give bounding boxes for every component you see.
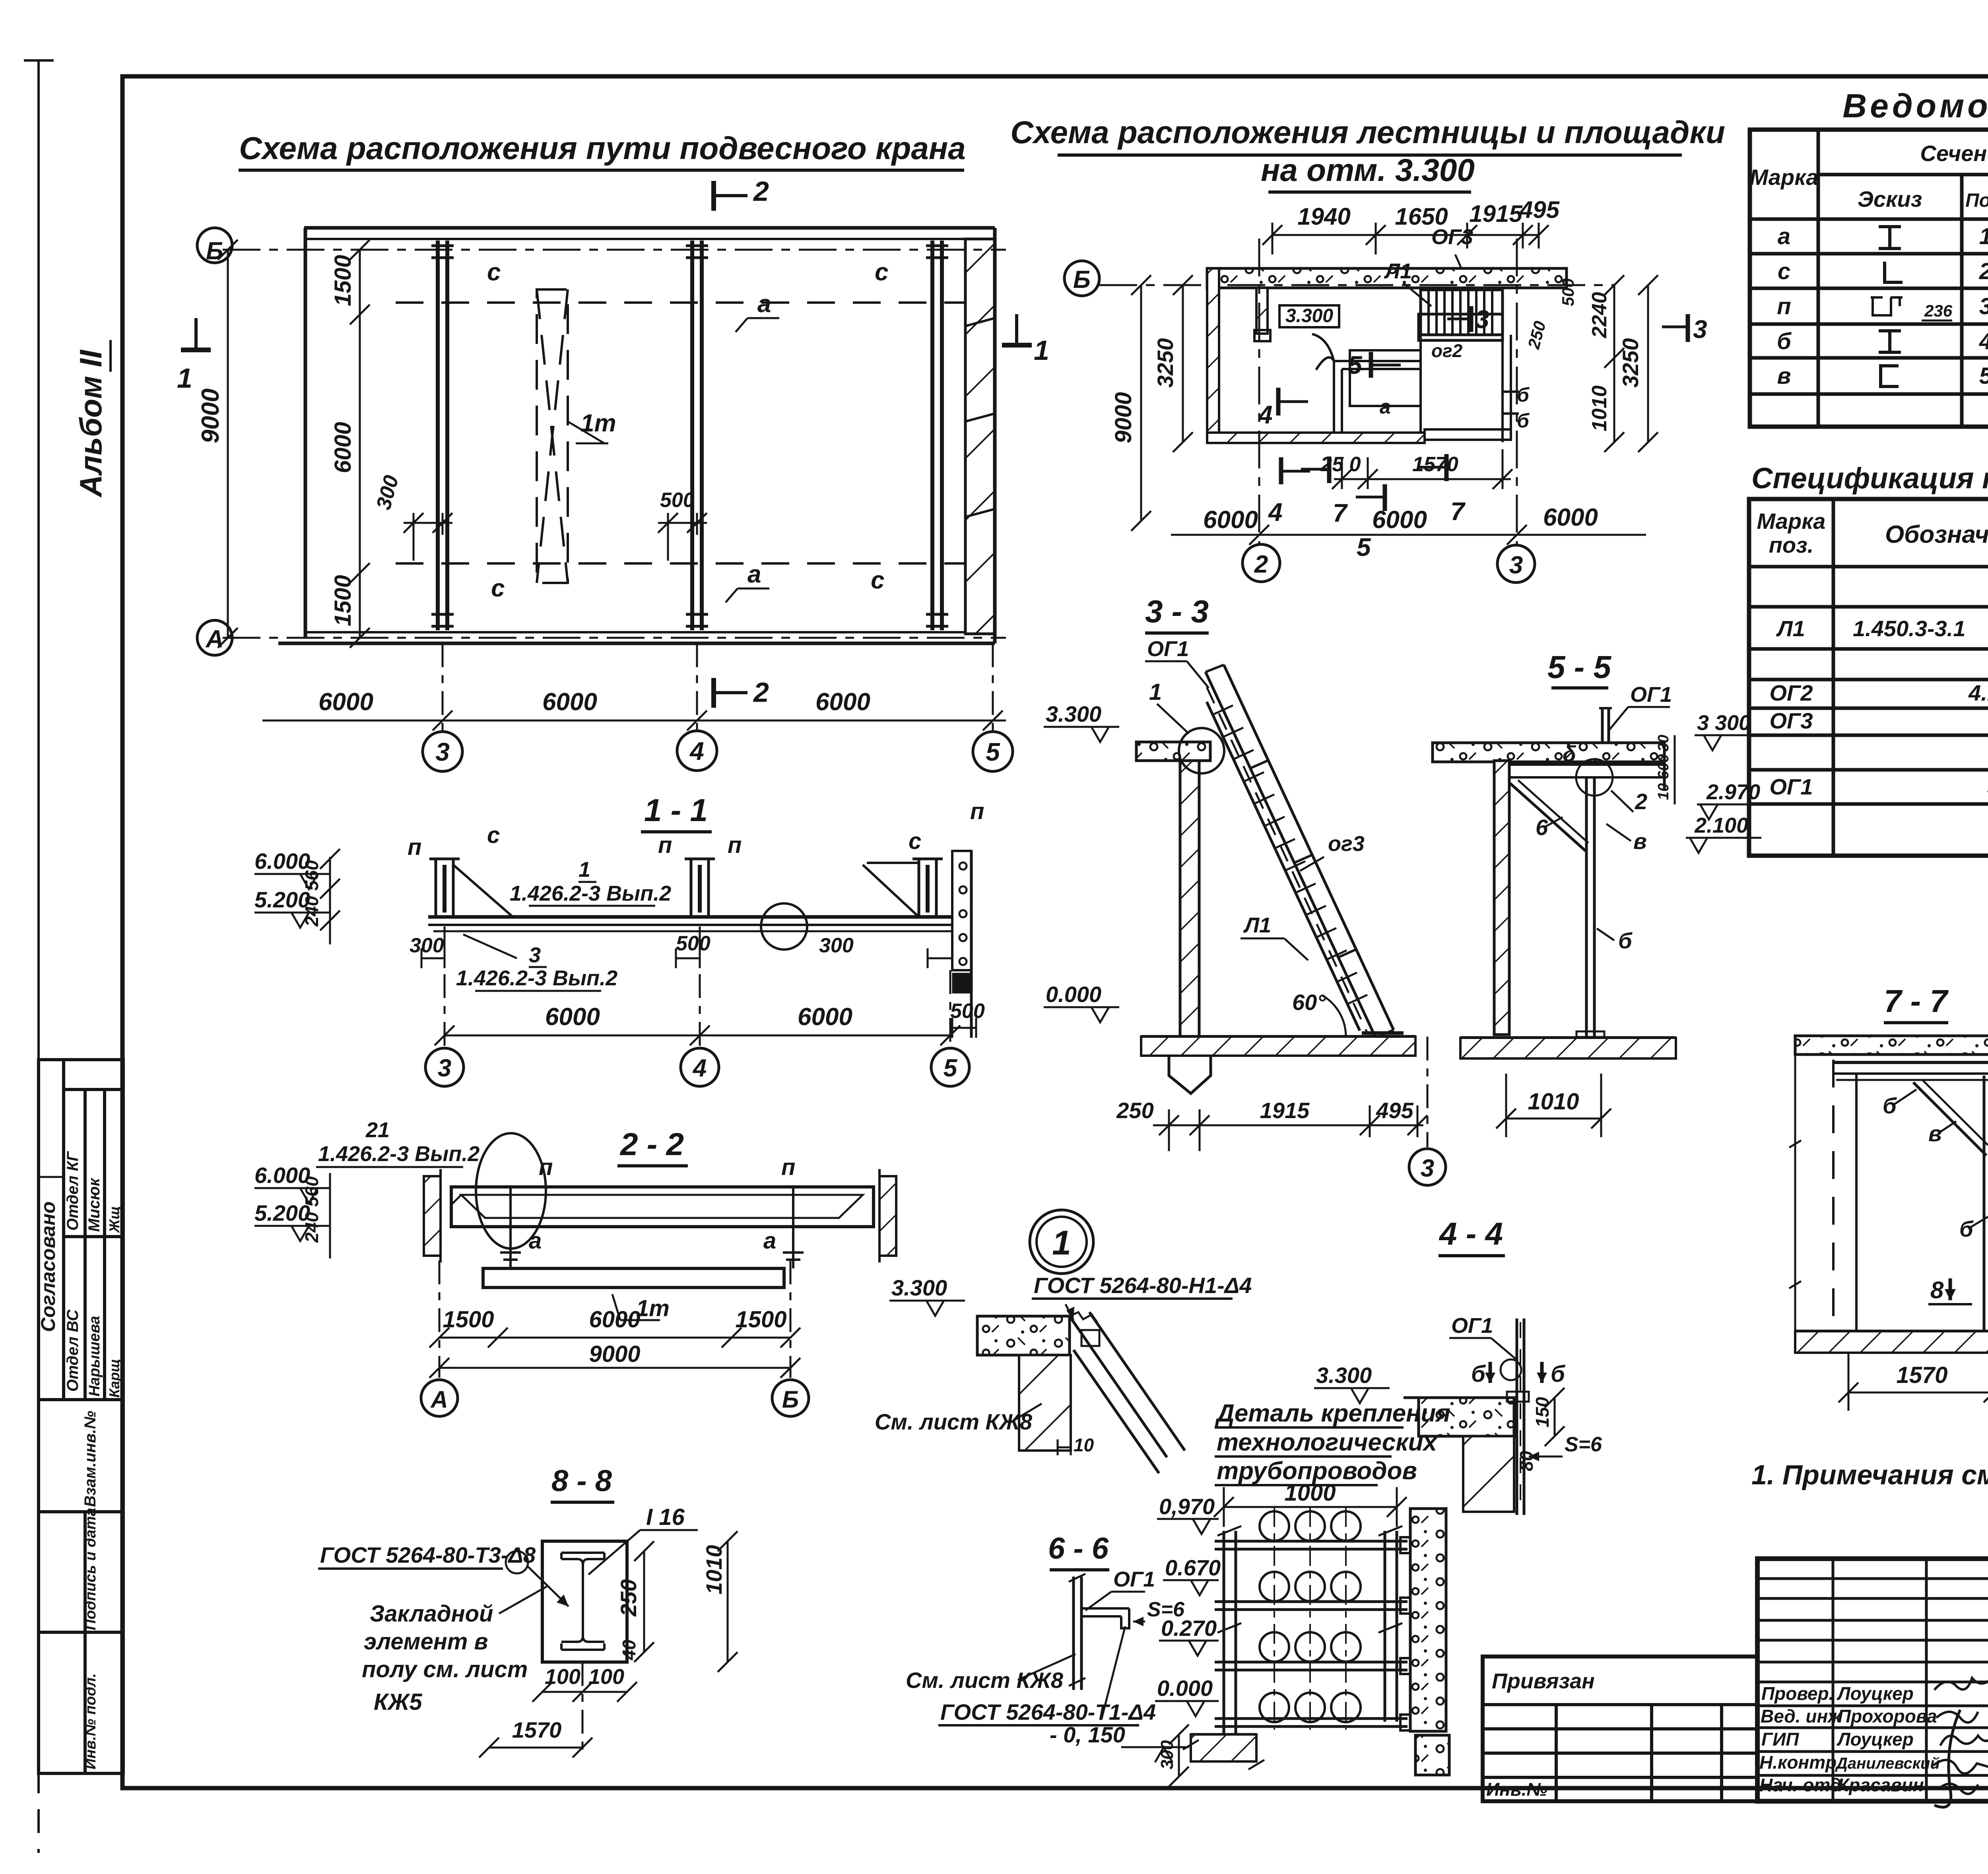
svg-text:б: б (1618, 928, 1633, 953)
svg-text:240: 240 (301, 1212, 322, 1243)
svg-text:c: c (875, 258, 888, 286)
elevations right (1694, 780, 1760, 837)
svg-text:3: 3 (438, 1054, 451, 1082)
svg-text:2 - 2: 2 - 2 (619, 1126, 684, 1162)
bottom dim 1570 (1848, 1392, 1988, 1394)
svg-text:ГОСТ 5264-80-Т3-Δ8: ГОСТ 5264-80-Т3-Δ8 (320, 1542, 536, 1567)
dim 1000 (1224, 1506, 1397, 1508)
svg-text:3: 3 (1421, 1155, 1434, 1182)
left break line (1794, 1036, 1796, 1331)
svg-text:236: 236 (1924, 301, 1953, 320)
dim 1010 (1506, 1118, 1601, 1120)
svg-text:Взам.инв.№: Взам.инв.№ (82, 1411, 99, 1507)
svg-text:1: 1 (1034, 335, 1049, 366)
svg-text:560: 560 (301, 1176, 322, 1207)
crane beam rails vertical (grid 3,4,5) (438, 241, 942, 630)
svg-text:Согласовано: Согласовано (37, 1201, 59, 1332)
svg-text:1570: 1570 (1896, 1362, 1947, 1388)
dim 250 / 1570 below platform (1332, 449, 1512, 489)
svg-text:1500: 1500 (443, 1307, 494, 1332)
ladder: stringers (1206, 665, 1394, 1038)
dims below (1153, 1124, 1423, 1126)
svg-text:ОГ1: ОГ1 (1769, 774, 1813, 799)
sketches column (1871, 227, 1903, 386)
svg-text:2240: 2240 (1588, 292, 1611, 338)
svg-text:10: 10 (1074, 1435, 1094, 1455)
svg-text:7 - 7: 7 - 7 (1884, 983, 1949, 1019)
section marker 1 left (181, 348, 211, 352)
svg-text:Данилевский: Данилевский (1835, 1755, 1940, 1772)
svg-text:1915: 1915 (1260, 1098, 1310, 1123)
svg-text:60°: 60° (1292, 990, 1326, 1015)
hanger assemblies at grids (429, 859, 943, 917)
note text (362, 1601, 528, 1715)
svg-text:1.426.2-3 Вып.2: 1.426.2-3 Вып.2 (456, 966, 617, 990)
svg-text:4: 4 (692, 1054, 707, 1082)
svg-text:1.426.2-3 Вып.2: 1.426.2-3 Вып.2 (318, 1142, 480, 1166)
right side markers/dims (1686, 314, 1690, 342)
shelf beam (1833, 1061, 1988, 1064)
grid axis B (223, 249, 1006, 251)
svg-text:1: 1 (1052, 1224, 1071, 1262)
right wall column (1410, 1509, 1446, 1731)
svg-text:2.100: 2.100 (1694, 814, 1748, 837)
svg-text:2: 2 (1979, 258, 1988, 284)
svg-text:1: 1 (177, 363, 192, 394)
svg-text:0.000: 0.000 (1157, 1676, 1213, 1701)
svg-text:б: б (1517, 384, 1530, 406)
signatures (1933, 1678, 1988, 1807)
plan top chord (304, 226, 995, 230)
svg-text:250: 250 (1116, 1098, 1153, 1123)
post (1983, 1076, 1986, 1333)
left wall (1207, 268, 1219, 442)
svg-text:б: б (1883, 1093, 1897, 1118)
dim column 1500/6000/1500 (359, 250, 361, 638)
svg-text:1: 1 (1149, 679, 1162, 705)
svg-text:Схема расположения пути под: Схема расположения пути подвесного крана (239, 130, 965, 166)
posts (1223, 1531, 1225, 1734)
svg-text:а: а (1778, 223, 1790, 249)
svg-text:30: 30 (1655, 735, 1672, 752)
svg-text:ОГ2: ОГ2 (1769, 680, 1813, 705)
vertical dims left (1140, 285, 1142, 521)
svg-text:240: 240 (301, 896, 322, 927)
svg-text:300: 300 (819, 934, 854, 957)
svg-text:c: c (1778, 258, 1790, 284)
dim 9000 vertical (227, 250, 229, 638)
slab (1795, 1036, 1988, 1054)
svg-text:4: 4 (1268, 498, 1283, 526)
main runway beam lines (428, 915, 964, 919)
title plan kran (239, 130, 965, 166)
svg-text:5: 5 (1979, 363, 1988, 389)
svg-text:2: 2 (753, 176, 769, 207)
svg-text:3250: 3250 (1618, 338, 1643, 388)
svg-text:Схема расположения лестницы и: Схема расположения лестницы и площадки (1010, 115, 1725, 150)
svg-text:КЖ5: КЖ5 (374, 1689, 422, 1715)
svg-text:80: 80 (1516, 1451, 1537, 1471)
svg-text:3: 3 (1979, 293, 1988, 319)
svg-text:Марка: Марка (1757, 509, 1826, 534)
svg-text:1т: 1т (636, 1295, 670, 1321)
svg-text:3: 3 (1475, 305, 1489, 334)
label 3 / 1.426.2-3 vyp.2 (456, 943, 617, 990)
axis B (1099, 284, 1614, 286)
svg-text:4: 4 (689, 737, 704, 765)
section markers 4,5,3,7 (1278, 306, 1471, 511)
svg-text:495: 495 (1519, 196, 1560, 223)
svg-text:c: c (909, 828, 921, 854)
svg-text:c: c (487, 822, 500, 848)
svg-text:б: б (1471, 1361, 1486, 1387)
svg-text:4: 4 (1979, 328, 1988, 354)
svg-text:Деталь крепления: Деталь крепления (1215, 1400, 1450, 1427)
svg-text:40: 40 (619, 1639, 639, 1660)
left wall hidden (1832, 1060, 1835, 1331)
svg-text:1.426.2-3 Вып.2: 1.426.2-3 Вып.2 (510, 882, 671, 905)
grid axis A (223, 637, 1006, 639)
svg-text:c: c (871, 567, 884, 594)
left sidebar stamp table (39, 1060, 123, 1773)
svg-text:а: а (757, 290, 771, 318)
svg-text:Жщ: Жщ (106, 1206, 122, 1233)
rungs (1213, 705, 1367, 1004)
svg-text:1010: 1010 (1588, 385, 1611, 431)
svg-text:Л1: Л1 (1384, 259, 1412, 283)
elevations left (254, 1163, 310, 1225)
svg-text:Марка: Марка (1750, 165, 1819, 190)
svg-text:ОГ1: ОГ1 (1147, 637, 1189, 661)
svg-text:3: 3 (529, 943, 541, 967)
svg-text:2: 2 (1635, 789, 1647, 814)
svg-text:5 - 5: 5 - 5 (1547, 649, 1612, 685)
svg-text:2: 2 (1254, 551, 1268, 578)
dims (643, 1551, 645, 1652)
section marker 2 top (711, 181, 716, 211)
left wall (1494, 761, 1509, 1035)
svg-text:Л1: Л1 (1776, 616, 1805, 641)
svg-text:Закладной: Закладной (370, 1601, 493, 1627)
ground (1795, 1330, 1988, 1333)
svg-text:Эскиз: Эскиз (1858, 186, 1922, 212)
right wall column (952, 851, 971, 970)
svg-text:2: 2 (753, 677, 769, 708)
slab (1419, 1398, 1514, 1436)
markers 8 (1930, 1277, 1988, 1303)
svg-text:3: 3 (435, 738, 450, 766)
slab 1t (483, 1268, 784, 1288)
svg-text:6000: 6000 (330, 422, 356, 473)
svg-text:ог2: ог2 (1431, 340, 1463, 361)
svg-text:б: б (1959, 1216, 1974, 1241)
svg-text:ОГ3: ОГ3 (1769, 708, 1813, 733)
top dims 1940 1650 1915 495 (1272, 234, 1539, 236)
svg-text:Отдел КГ: Отдел КГ (64, 1151, 82, 1231)
vertical dims right (1647, 285, 1649, 442)
svg-text:Н.контр: Н.контр (1759, 1752, 1837, 1773)
svg-text:1500: 1500 (330, 575, 356, 626)
svg-text:ОГ3: ОГ3 (1431, 225, 1473, 249)
svg-text:δ: δ (1563, 741, 1576, 766)
svg-text:ОГ1: ОГ1 (1113, 1567, 1155, 1591)
svg-text:Отдел ВС: Отдел ВС (64, 1309, 82, 1392)
svg-text:100: 100 (588, 1665, 624, 1689)
svg-text:См. лист КЖ8: См. лист КЖ8 (875, 1409, 1033, 1434)
svg-text:2.970: 2.970 (1706, 780, 1760, 804)
platform (1419, 314, 1503, 340)
ladder plan (1421, 290, 1503, 335)
elevation labels (1050, 1494, 1221, 1747)
svg-text:а: а (1380, 396, 1391, 418)
svg-text:Л1: Л1 (1243, 913, 1271, 937)
bottom dims (445, 1035, 950, 1037)
svg-text:500: 500 (676, 932, 711, 955)
svg-text:5: 5 (1348, 351, 1363, 379)
wall (1180, 761, 1199, 1037)
svg-text:1. Примечания см. на листе: 1. Примечания см. на листе КМ1. (1751, 1459, 1988, 1490)
elevations left (254, 849, 310, 912)
svg-text:Привязан: Привязан (1492, 1669, 1595, 1693)
post (1516, 1319, 1518, 1515)
svg-text:6000: 6000 (1543, 504, 1598, 531)
svg-text:Провер.: Провер. (1761, 1683, 1834, 1704)
I beam profile (561, 1553, 604, 1650)
svg-text:3250: 3250 (1153, 338, 1178, 388)
svg-text:3.300: 3.300 (1316, 1363, 1372, 1388)
bottom walls of plan (1207, 433, 1425, 443)
svg-text:ГОСТ 5264-80-Н1-Δ4: ГОСТ 5264-80-Н1-Δ4 (1034, 1273, 1252, 1298)
svg-text:п: п (970, 798, 984, 824)
svg-text:5: 5 (944, 1054, 958, 1082)
plan bottom chord (305, 631, 995, 633)
svg-text:Прохорова: Прохорова (1838, 1706, 1937, 1726)
brace (1913, 1082, 1986, 1155)
svg-text:600: 600 (1655, 754, 1672, 779)
svg-text:6000: 6000 (545, 1003, 600, 1031)
svg-text:1500: 1500 (330, 255, 356, 306)
svg-text:а: а (763, 1228, 776, 1254)
svg-text:3.300: 3.300 (1285, 305, 1333, 326)
svg-text:500: 500 (1559, 278, 1577, 306)
wall below slab (1463, 1436, 1514, 1512)
svg-text:Лоуцкер: Лоуцкер (1837, 1683, 1914, 1704)
svg-text:1010: 1010 (701, 1545, 726, 1594)
svg-text:21: 21 (365, 1118, 390, 1142)
landing foot plate (1362, 1031, 1404, 1035)
detail circle 1 at top (1179, 728, 1224, 773)
section marker 1 right (1002, 343, 1032, 348)
svg-text:Инв.№ подл.: Инв.№ подл. (82, 1673, 99, 1769)
svg-text:6000: 6000 (815, 688, 870, 716)
small dims 300 500 300 (410, 932, 985, 1023)
svg-text:250: 250 (616, 1579, 641, 1617)
album II vertical text (73, 350, 108, 498)
svg-text:Б: Б (206, 237, 223, 265)
ground (1460, 1036, 1676, 1039)
svg-text:1500: 1500 (735, 1307, 786, 1332)
label 1 / 1.426.2-3 vyp.2 (510, 858, 671, 905)
base (1046, 982, 1101, 1007)
svg-text:ГИП: ГИП (1761, 1729, 1799, 1750)
svg-text:4.1.2.1.0-13: 4.1.2.1.0-13 (1968, 680, 1988, 705)
svg-text:10: 10 (1655, 783, 1672, 800)
svg-text:1915: 1915 (1469, 200, 1523, 227)
svg-text:c: c (491, 575, 505, 602)
svg-text:500: 500 (660, 489, 695, 512)
svg-text:I 16: I 16 (646, 1504, 685, 1530)
svg-text:c: c (487, 258, 501, 286)
svg-text:9000: 9000 (1110, 392, 1136, 443)
svg-text:элемент в: элемент в (364, 1629, 488, 1655)
svg-text:а: а (529, 1228, 542, 1254)
svg-text:технологических: технологических (1217, 1429, 1438, 1456)
svg-text:Вед. инж: Вед. инж (1761, 1706, 1842, 1726)
svg-text:в: в (1633, 829, 1647, 854)
svg-text:на отм. 3.300: на отм. 3.300 (1261, 152, 1475, 188)
paper fold line left (37, 60, 40, 1610)
svg-text:Альбом II: Альбом II (73, 350, 108, 498)
svg-text:9000: 9000 (197, 388, 224, 443)
svg-text:100: 100 (545, 1665, 580, 1689)
svg-text:6000: 6000 (1372, 506, 1427, 534)
top slab (1136, 742, 1210, 761)
svg-text:Поз.: Поз. (1965, 190, 1988, 211)
slab (977, 1316, 1070, 1355)
data rows (1777, 223, 1988, 391)
svg-text:0.270: 0.270 (1161, 1616, 1217, 1641)
rail end I-symbols (431, 246, 948, 626)
svg-text:1010: 1010 (1528, 1089, 1579, 1115)
svg-text:1940: 1940 (1297, 203, 1350, 230)
svg-text:Лоуцкер: Лоуцкер (1837, 1729, 1914, 1750)
svg-text:3.300: 3.300 (1046, 701, 1101, 726)
svg-text:1.450.3-3.1: 1.450.3-3.1 (1853, 616, 1965, 641)
svg-text:Спецификация к схеме расположе: Спецификация к схеме расположения лестни… (1751, 462, 1988, 495)
dims right (1554, 1398, 1556, 1436)
svg-text:8 - 8: 8 - 8 (551, 1464, 612, 1498)
svg-text:6000: 6000 (542, 688, 597, 716)
crane beam side view (451, 1187, 874, 1227)
svg-text:8: 8 (1930, 1277, 1944, 1303)
svg-text:Карщ: Карщ (106, 1359, 122, 1398)
svg-text:7: 7 (1333, 499, 1348, 527)
plan bottom dims 6000x3 (262, 720, 1006, 722)
svg-text:поз.: поз. (1769, 532, 1814, 557)
grid verticals 2,3 (1258, 239, 1260, 544)
svg-text:5: 5 (986, 738, 1000, 766)
svg-text:- 0, 150: - 0, 150 (1050, 1722, 1125, 1747)
embedded plate (542, 1541, 627, 1662)
pier stub (1256, 288, 1268, 334)
svg-text:3 - 3: 3 - 3 (1145, 594, 1209, 629)
svg-text:Нарышева: Нарышева (86, 1316, 103, 1396)
svg-text:б: б (1777, 328, 1792, 354)
svg-text:б: б (1551, 1361, 1566, 1387)
svg-text:7: 7 (1450, 497, 1466, 526)
svg-text:3: 3 (1509, 552, 1523, 579)
svg-text:6000: 6000 (318, 688, 373, 716)
plan left edge (304, 228, 307, 638)
svg-text:в: в (1777, 363, 1791, 389)
right wall hatched (965, 239, 995, 634)
svg-text:4 - 4: 4 - 4 (1439, 1216, 1503, 1251)
svg-text:п: п (1777, 293, 1791, 319)
svg-text:1000: 1000 (1284, 1480, 1336, 1506)
svg-text:п: п (658, 832, 672, 858)
svg-text:А: А (430, 1386, 448, 1413)
svg-text:Красавин: Красавин (1838, 1775, 1924, 1795)
svg-text:Нач. отд: Нач. отд (1759, 1775, 1841, 1795)
svg-text:6000: 6000 (1203, 506, 1258, 534)
3.300 box (1279, 305, 1339, 327)
wall below (1019, 1355, 1071, 1451)
svg-text:Б: Б (782, 1386, 799, 1413)
svg-text:п: п (408, 834, 421, 860)
b markers right of platform (1517, 384, 1530, 432)
svg-text:п: п (781, 1154, 795, 1180)
dashed tie lines c (396, 301, 965, 304)
svg-text:полу см. лист: полу см. лист (362, 1656, 528, 1682)
svg-text:а: а (747, 561, 761, 588)
svg-text:Сечение: Сечение (1920, 141, 1988, 166)
ground (1191, 1733, 1256, 1736)
dim 300 / 500 small (404, 513, 452, 561)
rail-to-wall stubs (1400, 1537, 1412, 1730)
wall piers (424, 1176, 441, 1256)
slab (1433, 743, 1664, 762)
svg-text:25 0: 25 0 (1320, 453, 1361, 476)
small linked table (1483, 1656, 1757, 1801)
top slab strip (1207, 268, 1567, 288)
svg-text:ог3: ог3 (1328, 832, 1365, 856)
svg-text:0.670: 0.670 (1165, 1555, 1221, 1580)
svg-text:S=6: S=6 (1565, 1433, 1602, 1456)
svg-text:0,970: 0,970 (1159, 1494, 1215, 1519)
svg-text:Ведомость элементов: Ведомость элементов (1842, 87, 1988, 124)
bottom dims (439, 1337, 790, 1339)
svg-text:ОГ1: ОГ1 (1630, 683, 1672, 707)
svg-text:п: п (539, 1154, 553, 1180)
bracket (1081, 1608, 1129, 1628)
svg-text:5: 5 (1357, 533, 1371, 561)
svg-text:150: 150 (1532, 1397, 1553, 1427)
svg-text:Инв.№: Инв.№ (1486, 1779, 1547, 1800)
rails (1215, 1541, 1408, 1726)
svg-text:1 - 1: 1 - 1 (644, 792, 708, 828)
svg-text:3.300: 3.300 (891, 1275, 947, 1300)
svg-text:6 - 6: 6 - 6 (1048, 1532, 1109, 1565)
svg-text:Обозначение: Обозначение (1885, 521, 1988, 548)
hangers (499, 1187, 805, 1268)
stair top connection (1070, 1312, 1185, 1473)
crane 1t dashed outline (537, 289, 568, 583)
svg-text:3 300: 3 300 (1697, 711, 1751, 735)
platform beam top (1509, 763, 1664, 766)
svg-text:495: 495 (1376, 1098, 1413, 1123)
brace (1510, 783, 1586, 851)
svg-text:6000: 6000 (798, 1003, 852, 1031)
svg-text:Б: Б (1073, 266, 1091, 293)
svg-text:6000: 6000 (589, 1307, 640, 1332)
braces (453, 863, 919, 917)
svg-text:ОГ1: ОГ1 (1451, 1314, 1493, 1338)
machine room walls (1334, 290, 1511, 442)
svg-text:0.000: 0.000 (1046, 982, 1101, 1007)
svg-text:А: А (205, 625, 224, 653)
svg-text:560: 560 (301, 860, 322, 891)
svg-text:ГОСТ 5264-80-Т1-Δ4: ГОСТ 5264-80-Т1-Δ4 (940, 1699, 1156, 1724)
